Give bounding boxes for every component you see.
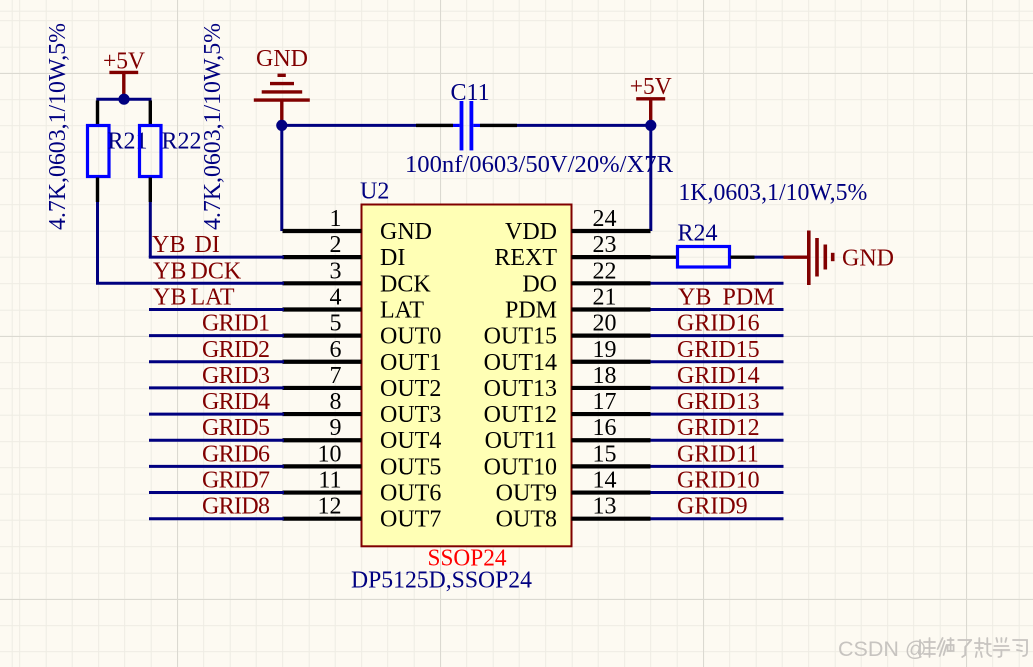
svg-text:GRID15: GRID15 [677,337,760,363]
svg-text:21: 21 [593,284,617,310]
designator R24 [678,221,718,247]
junction (+5V / VDD node) [645,120,656,131]
svg-text:YBLAT: YBLAT [153,284,235,310]
svg-text:GRID3: GRID3 [202,363,270,389]
svg-text:+5V: +5V [630,74,673,100]
pin 16 (OUT11) [485,415,651,454]
net label GRID12 [677,415,760,441]
wire GRID14 [651,386,784,389]
svg-text:GRID14: GRID14 [677,363,760,389]
svg-text:YBPDM: YBPDM [678,284,775,310]
pin 10 (OUT5) [283,441,442,480]
svg-text:OUT11: OUT11 [485,428,557,454]
svg-text:OUT15: OUT15 [484,324,557,350]
svg-text:GRID2: GRID2 [202,337,270,363]
svg-text:VDD: VDD [505,219,557,245]
svg-text:4.7K,0603,1/10W,5%: 4.7K,0603,1/10W,5% [200,23,226,230]
pin 15 (OUT10) [484,441,651,480]
junction (+5V / R21 / R22 node) [118,94,129,105]
svg-text:6: 6 [330,337,342,363]
pin 1 (GND) [283,206,433,245]
svg-text:DCK: DCK [380,271,431,297]
wire LAT [149,308,284,311]
svg-text:100nf/0603/50V/20%/X7R: 100nf/0603/50V/20%/X7R [405,152,673,178]
net label YB DI [152,232,220,258]
wire GRID10 [651,491,784,494]
designator R21 [108,129,148,155]
svg-text:OUT0: OUT0 [380,324,441,350]
wire R24 to GND [755,256,784,259]
svg-text:DO: DO [522,271,557,297]
wire GRID2 [149,360,284,363]
wire PDM [651,308,784,311]
svg-text:OUT4: OUT4 [380,428,441,454]
svg-text:+5V: +5V [103,49,146,75]
svg-text:YBDCK: YBDCK [153,258,242,284]
net label GRID2 [202,337,270,363]
footprint label SSOP24 [428,546,507,572]
net label GRID4 [202,389,270,415]
wire C11 right pin to +5V node [480,124,651,127]
wire GRID11 [651,465,784,468]
designator C11 [451,80,490,106]
svg-text:OUT14: OUT14 [484,350,557,376]
svg-text:OUT1: OUT1 [380,350,441,376]
svg-text:R24: R24 [678,221,718,247]
wire DO [651,282,784,285]
svg-text:OUT9: OUT9 [496,481,557,507]
svg-text:GRID11: GRID11 [677,441,759,467]
pin 18 (OUT13) [484,363,651,402]
pin 2 (DI) [283,232,406,271]
pin 12 (OUT7) [283,494,442,533]
svg-text:OUT2: OUT2 [380,376,441,402]
wire GRID15 [651,360,784,363]
wire R21 to DCK [96,202,284,283]
svg-text:24: 24 [593,206,617,232]
wire GND node down to pin 1 [280,125,283,231]
pin 22 (DO) [522,258,650,297]
net label GRID9 [677,494,748,520]
svg-text:15: 15 [593,441,617,467]
svg-text:2: 2 [330,232,342,258]
net label GRID5 [202,415,270,441]
power GND (right) [784,231,895,286]
svg-text:OUT12: OUT12 [484,402,557,428]
pin 13 (OUT8) [496,494,651,533]
pin 6 (OUT1) [283,337,442,376]
svg-text:3: 3 [330,258,342,284]
power +5V (right) [630,74,673,122]
svg-text:16: 16 [593,415,617,441]
svg-text:OUT7: OUT7 [380,507,441,533]
svg-text:CSDN @: CSDN @ [838,637,927,661]
pin 3 (DCK) [283,258,432,297]
resistor R21 value 4.7K,0603,1/10W,5% (vertical) [45,23,71,230]
net label YB DCK [153,258,242,284]
wire R22 to DI [149,202,284,257]
svg-text:R22: R22 [162,129,202,155]
resistor R22 [140,101,162,203]
svg-text:R21: R21 [108,129,148,155]
pin 23 (REXT) [494,232,650,271]
part value DP5125D,SSOP24 [351,568,532,594]
svg-text:7: 7 [330,363,342,389]
svg-text:REXT: REXT [494,245,557,271]
svg-text:4.7K,0603,1/10W,5%: 4.7K,0603,1/10W,5% [45,23,71,230]
wire GRID9 [651,517,784,520]
svg-text:18: 18 [593,363,617,389]
svg-text:GRID7: GRID7 [202,468,270,494]
svg-text:9: 9 [330,415,342,441]
svg-text:8: 8 [330,389,342,415]
IC U2 body [362,205,572,547]
svg-text:14: 14 [593,468,617,494]
svg-text:22: 22 [593,258,617,284]
svg-text:19: 19 [593,337,617,363]
net label GRID7 [202,468,270,494]
svg-text:1K,0603,1/10W,5%: 1K,0603,1/10W,5% [678,180,867,206]
pin 9 (OUT4) [283,415,442,454]
svg-text:OUT8: OUT8 [496,507,557,533]
svg-text:DI: DI [380,245,405,271]
svg-text:GRID4: GRID4 [202,389,270,415]
svg-text:GRID1: GRID1 [202,311,270,337]
pin 14 (OUT9) [496,468,651,507]
wire GRID5 [149,439,284,442]
pin 4 (LAT) [283,284,425,323]
svg-text:13: 13 [593,494,617,520]
svg-text:GND: GND [380,219,432,245]
net label GRID16 [677,311,760,337]
svg-text:U2: U2 [360,179,389,205]
watermark CSDN [838,637,1027,661]
svg-text:OUT10: OUT10 [484,454,557,480]
svg-text:GRID10: GRID10 [677,468,760,494]
resistor R21 [88,101,110,203]
net label YB PDM [678,284,775,310]
svg-text:10: 10 [318,441,342,467]
net label GRID13 [677,389,760,415]
net label GRID3 [202,363,270,389]
net label GRID6 [202,441,270,467]
junction (GND / C11 / pin1 node) [276,120,287,131]
svg-text:GRID9: GRID9 [677,494,748,520]
svg-text:C11: C11 [451,80,490,106]
wire GRID13 [651,413,784,416]
wire GRID3 [149,386,284,389]
svg-text:5: 5 [330,311,342,337]
svg-text:GRID13: GRID13 [677,389,760,415]
svg-text:17: 17 [593,389,617,415]
svg-text:OUT13: OUT13 [484,376,557,402]
wire GRID1 [149,334,284,337]
pin 20 (OUT15) [484,311,651,350]
svg-text:GND: GND [842,246,894,272]
wire +5V node horizontal [96,98,151,101]
svg-text:DP5125D,SSOP24: DP5125D,SSOP24 [351,568,532,594]
svg-text:OUT6: OUT6 [380,481,441,507]
svg-text:LAT: LAT [380,297,424,323]
pin 24 (VDD) [505,206,651,245]
net label GRID10 [677,468,760,494]
wire GND node to C11 left pin [282,124,453,127]
svg-text:GRID6: GRID6 [202,441,270,467]
svg-text:GRID12: GRID12 [677,415,760,441]
pin 21 (PDM) [505,284,651,323]
svg-text:GRID5: GRID5 [202,415,270,441]
pin 17 (OUT12) [484,389,651,428]
capacitor C11 value 100nf/0603/50V/20%/X7R [405,152,673,178]
pin 11 (OUT6) [283,468,442,507]
designator U2 [360,179,389,205]
wire GRID8 [149,517,284,520]
svg-text:PDM: PDM [505,297,557,323]
pin 8 (OUT3) [283,389,442,428]
net label GRID14 [677,363,760,389]
svg-text:GND: GND [256,46,308,72]
designator R22 [162,129,202,155]
wire GRID6 [149,465,284,468]
pin 7 (OUT2) [283,363,442,402]
svg-text:23: 23 [593,232,617,258]
wire GRID16 [651,334,784,337]
net label YB LAT [153,284,235,310]
net label GRID8 [202,494,270,520]
pin 5 (OUT0) [283,311,442,350]
svg-text:20: 20 [593,311,617,337]
svg-text:YBDI: YBDI [152,232,220,258]
resistor R22 value 4.7K,0603,1/10W,5% (vertical) [200,23,226,230]
svg-text:GRID16: GRID16 [677,311,760,337]
svg-text:12: 12 [318,494,342,520]
wire +5V down to pin 24 [649,125,652,231]
svg-text:GRID8: GRID8 [202,494,270,520]
svg-text:1: 1 [330,206,342,232]
capacitor C11 [416,101,517,150]
power +5V (left) [103,49,146,97]
net label GRID15 [677,337,760,363]
net label GRID11 [677,441,759,467]
wire GRID4 [149,413,284,416]
svg-text:4: 4 [330,284,342,310]
wire GRID12 [651,439,784,442]
power GND (top-left) [254,46,310,122]
resistor R24 [651,247,755,268]
svg-text:OUT3: OUT3 [380,402,441,428]
resistor R24 value 1K,0603,1/10W,5% [678,180,867,206]
wire GRID7 [149,491,284,494]
pin 19 (OUT14) [484,337,651,376]
svg-text:OUT5: OUT5 [380,454,441,480]
svg-text:11: 11 [318,468,341,494]
net label GRID1 [202,311,270,337]
